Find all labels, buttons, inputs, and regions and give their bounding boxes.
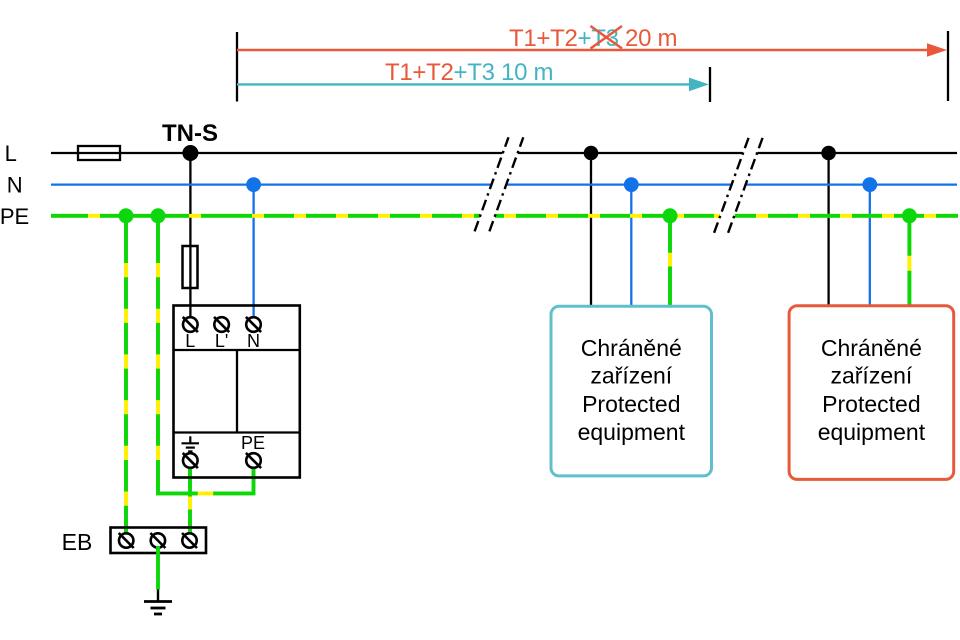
dimension tick middle (10 m) (709, 67, 711, 102)
wire: black drop to protected equipment box 1 (590, 153, 592, 306)
svg-text:L: L (5, 141, 17, 166)
line break symbol 1 (diagonals) (475, 137, 509, 231)
node: TN-S junction on L (182, 145, 198, 161)
dimension tick right (20 m) (947, 31, 949, 101)
svg-text:equipment: equipment (818, 419, 926, 445)
svg-text:T1+T2+T3 10 m: T1+T2+T3 10 m (385, 59, 553, 86)
svg-text:Protected: Protected (822, 391, 920, 417)
protected equipment box 2 (red) (789, 306, 954, 480)
svg-text:TN-S: TN-S (162, 120, 218, 147)
wire: PE drop to protected equipment box 1 (yellow-green) (668, 216, 672, 306)
node: L junction at box 1 (584, 146, 599, 161)
dimension tick left (236, 32, 238, 102)
node: PE junction at box 1 (663, 208, 678, 223)
X strike over T3 (591, 26, 623, 49)
SPD device box (174, 306, 300, 478)
svg-text:L: L (185, 331, 195, 351)
SPD PE terminal (246, 453, 261, 468)
svg-text:PE: PE (241, 433, 265, 453)
wire: blue drop to protected equipment box 2 (869, 185, 871, 306)
wire: blue drop from N node to SPD N terminal (252, 185, 254, 318)
EB terminal block (111, 528, 207, 554)
line break symbol 2 (diagonals) (714, 137, 749, 233)
SPD divider top (174, 349, 300, 351)
wire: green drop from SPD ground terminal to EB right terminal (188, 468, 192, 535)
node: N junction at box 1 (624, 177, 639, 192)
EB terminal 1 (119, 533, 134, 548)
EB terminal 3 (182, 533, 197, 548)
svg-text:N: N (247, 331, 260, 351)
svg-text:PE: PE (0, 204, 29, 229)
fuse F1 on L bus (78, 146, 120, 160)
wire: black drop to protected equipment box 2 (827, 153, 829, 306)
fuse F2 on SPD feed wire (183, 246, 198, 288)
wire: blue drop to protected equipment box 1 (630, 185, 632, 306)
wire: green from EB middle terminal to earth (156, 546, 160, 590)
node: L junction at box 2 (821, 146, 836, 161)
svg-text:Chráněné: Chráněné (821, 335, 922, 361)
svg-text:equipment: equipment (578, 419, 686, 445)
node: PE junction at box 2 (902, 208, 917, 223)
line break symbol 1 (gaps) (502, 150, 517, 157)
SPD ground symbol (182, 436, 200, 451)
SPD terminal L (183, 317, 198, 332)
svg-text:L': L' (215, 331, 228, 351)
wire: PE drop to protected equipment box 2 (yellow-green) (907, 216, 911, 306)
wire: PE drop left (to EB left terminal) (124, 216, 128, 534)
svg-text:N: N (7, 173, 23, 198)
wire: PE drop to SPD PE terminal (down, right, up) (158, 216, 254, 494)
line break symbol 2 (gaps) (743, 150, 758, 157)
svg-text:zařízení: zařízení (830, 363, 912, 389)
dimension arrow 10 m (cyan) (237, 83, 691, 85)
SPD terminal L' (214, 317, 229, 332)
protected equipment box 1 (cyan) (551, 306, 712, 476)
SPD divider bottom (174, 431, 300, 433)
node: N junction at box 2 (862, 177, 877, 192)
dimension arrow 20 m (red) (237, 49, 929, 51)
EB terminal 2 (150, 533, 165, 548)
node: N junction at SPD (246, 177, 261, 192)
SPD middle vertical divider (236, 350, 238, 433)
svg-text:EB: EB (62, 529, 93, 555)
node: PE junction left 1 (119, 208, 134, 223)
SPD ground terminal (183, 453, 198, 468)
SPD terminal N (246, 317, 261, 332)
svg-text:Chráněné: Chráněné (581, 335, 682, 361)
wire: black drop from TN-S node to SPD L terminal (189, 153, 191, 318)
bus wire N (blue) (51, 183, 957, 185)
svg-text:zařízení: zařízení (590, 363, 672, 389)
earth ground symbol (144, 590, 172, 615)
svg-text:Protected: Protected (582, 391, 680, 417)
bus wire PE (green/yellow) (51, 214, 958, 218)
node: PE junction left 2 (151, 208, 166, 223)
bus wire L (black) (51, 152, 957, 154)
